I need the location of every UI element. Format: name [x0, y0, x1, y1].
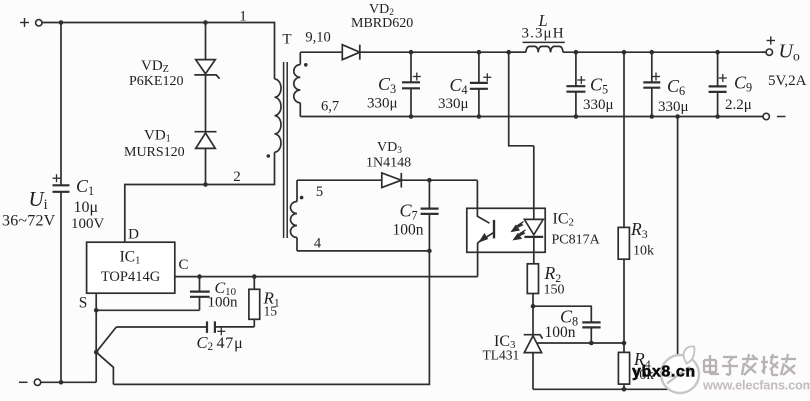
- svg-text:VDZ: VDZ: [141, 58, 169, 75]
- transformer bias winding 5,4: [291, 180, 297, 251]
- shunt regulator IC3 TL431: [524, 335, 592, 390]
- junction R1 top: [252, 274, 257, 279]
- wire LED feed: [509, 52, 534, 146]
- svg-text:4: 4: [314, 236, 322, 252]
- svg-text:6,7: 6,7: [321, 99, 339, 115]
- svg-text:R2: R2: [544, 263, 562, 285]
- label R3: [630, 219, 654, 259]
- svg-text:100V: 100V: [71, 216, 105, 232]
- wire secondary top rail b: [360, 51, 525, 53]
- diode VD2 MBRD620: [342, 45, 360, 60]
- junction C3 bottom: [409, 114, 414, 119]
- wire bias bottom (pin4 to C7): [297, 250, 429, 252]
- svg-text:5V,2A: 5V,2A: [768, 73, 807, 89]
- svg-text:1N4148: 1N4148: [366, 156, 411, 171]
- svg-text:VD3: VD3: [377, 140, 402, 156]
- svg-text:330μ: 330μ: [367, 96, 398, 112]
- transformer T label: [282, 32, 291, 48]
- inductor L: [509, 42, 565, 52]
- svg-text:S: S: [79, 295, 88, 312]
- svg-text:36~72V: 36~72V: [2, 213, 56, 230]
- label IC3: [483, 333, 520, 363]
- wire R3 drop: [623, 52, 625, 227]
- label C3: [367, 74, 398, 112]
- junction LED feed: [506, 50, 511, 55]
- svg-text:3.3μH: 3.3μH: [522, 26, 565, 42]
- label L: [522, 11, 565, 42]
- output terminal Uo +: [762, 36, 775, 55]
- wire primary top: [274, 23, 276, 80]
- output terminal -: [763, 113, 786, 119]
- svg-text:ybx8.cn: ybx8.cn: [632, 364, 696, 381]
- wire secondary top rail c: [563, 51, 769, 53]
- junction C10 top: [197, 274, 202, 279]
- capacitor C1: [53, 23, 70, 383]
- wire output ground rail: [300, 116, 766, 118]
- label C7: [393, 201, 424, 239]
- svg-text:100n: 100n: [393, 222, 424, 239]
- capacitor C8: [533, 306, 601, 343]
- label VD2: [351, 2, 413, 31]
- wire ground drop right: [677, 117, 679, 390]
- label 5V 2A: [768, 73, 807, 89]
- svg-text:15: 15: [264, 304, 278, 319]
- svg-text:47μ: 47μ: [217, 335, 244, 352]
- label C9: [725, 73, 752, 114]
- label R1: [263, 289, 280, 319]
- wire primary-side return: [113, 251, 429, 385]
- wire C pin to emitter: [175, 276, 478, 278]
- resistor R4: [618, 343, 629, 389]
- label IC1: [101, 249, 161, 286]
- junction VDZ top: [203, 20, 208, 25]
- ic IC1 TOP414G: [87, 242, 175, 293]
- pin label S: [79, 295, 88, 312]
- svg-text:9,10: 9,10: [305, 30, 330, 46]
- label R2: [544, 263, 565, 298]
- junction C1 top: [59, 20, 64, 25]
- capacitor C2: [116, 321, 254, 335]
- svg-text:www.elecfans.com: www.elecfans.com: [702, 378, 810, 393]
- junction C1 bottom: [59, 380, 64, 385]
- svg-text:MBRD620: MBRD620: [351, 16, 413, 31]
- junction S node 2: [94, 350, 99, 355]
- pin label 9,10: [305, 30, 330, 46]
- label VDZ: [129, 58, 183, 89]
- input terminal - (Ui negative): [19, 379, 61, 385]
- svg-text:100n: 100n: [208, 295, 239, 311]
- primary polarity dot: [267, 154, 271, 158]
- junction C7 top: [427, 178, 432, 183]
- wire secondary top rail a: [300, 51, 342, 53]
- input terminal + (Ui positive): [20, 18, 61, 27]
- svg-text:MURS120: MURS120: [124, 145, 185, 160]
- svg-text:D: D: [128, 227, 139, 243]
- label VD3: [366, 140, 411, 171]
- svg-text:R3: R3: [630, 219, 648, 241]
- svg-text:C4: C4: [450, 75, 468, 97]
- wire S pin: [95, 293, 97, 382]
- pin label C: [178, 257, 188, 273]
- label R4: [632, 349, 655, 383]
- transformer core: [284, 62, 288, 238]
- resistor R2: [527, 264, 538, 306]
- opto light arrows: [512, 222, 526, 240]
- junction C3 top: [409, 50, 414, 55]
- diode VD1 MURS120: [195, 132, 217, 149]
- svg-text:10μ: 10μ: [74, 199, 99, 216]
- pin label 6,7: [321, 99, 339, 115]
- pin label 4: [314, 236, 322, 252]
- label IC2: [552, 211, 601, 248]
- wire source diag: [96, 352, 113, 384]
- junction C9 bottom: [715, 114, 720, 119]
- svg-text:5: 5: [316, 184, 323, 200]
- junction S node: [94, 308, 99, 313]
- wire input bottom: [61, 381, 96, 383]
- label VD1: [124, 128, 185, 161]
- svg-text:330μ: 330μ: [583, 97, 614, 113]
- junction R3 top: [622, 50, 627, 55]
- wire VDZ top: [205, 23, 207, 60]
- capacitor C9: [709, 52, 727, 116]
- svg-text:VD1: VD1: [144, 128, 171, 145]
- secondary polarity dot: [304, 63, 308, 67]
- capacitor C3: [402, 52, 421, 116]
- label C6: [658, 76, 689, 115]
- diode VD3 1N4148: [382, 173, 402, 188]
- svg-text:100n: 100n: [545, 324, 576, 341]
- wire bottom right ground: [533, 388, 678, 390]
- wire VDZ-VD1: [205, 75, 207, 132]
- svg-text:Ui: Ui: [29, 187, 48, 213]
- label C1 value: [71, 176, 105, 232]
- svg-text:C5: C5: [590, 75, 608, 97]
- svg-text:TL431: TL431: [483, 348, 520, 363]
- svg-text:Uo: Uo: [779, 41, 800, 64]
- svg-text:2.2μ: 2.2μ: [725, 97, 752, 113]
- node 1 label: [239, 9, 247, 25]
- junction C4 bottom: [477, 114, 482, 119]
- wire bias top: [297, 179, 382, 181]
- pin label D: [128, 227, 139, 243]
- junction C7 bottom: [427, 249, 432, 254]
- capacitor C6: [643, 52, 660, 116]
- svg-text:TOP414G: TOP414G: [101, 269, 161, 285]
- watermark elecfans cn text: [704, 354, 796, 375]
- zener diode VDZ P6KE120: [194, 60, 219, 79]
- bias polarity dot: [300, 196, 304, 200]
- pin label 5: [316, 184, 323, 200]
- label C10: [208, 280, 239, 311]
- capacitor C5: [566, 52, 585, 116]
- junction C5 top: [574, 50, 579, 55]
- junction C6 bottom: [650, 114, 655, 119]
- label Ui: [2, 187, 56, 230]
- node 2 label: [233, 169, 241, 185]
- svg-text:C3: C3: [378, 74, 396, 96]
- wire VD3 to opto: [401, 179, 477, 181]
- label C2: [197, 333, 244, 353]
- svg-text:C7: C7: [400, 201, 418, 223]
- junction gnd drop: [675, 114, 680, 119]
- opto phototransistor: [477, 180, 494, 276]
- wire S to C10: [96, 309, 199, 311]
- label Uo: [779, 41, 800, 64]
- svg-text:IC2: IC2: [553, 211, 574, 229]
- label C5: [583, 75, 614, 114]
- transformer primary winding: [275, 79, 282, 152]
- label C8: [545, 307, 579, 342]
- label C4: [438, 75, 469, 112]
- svg-text:T: T: [282, 32, 291, 48]
- capacitor C4: [470, 52, 491, 116]
- wire VD1 bottom: [205, 148, 207, 184]
- opto LED: [524, 146, 543, 264]
- svg-text:C2: C2: [197, 333, 214, 353]
- watermark ybx8.cn: [632, 364, 696, 381]
- watermark elecfans url: [702, 378, 810, 393]
- resistor R3: [618, 227, 629, 259]
- svg-text:PC817A: PC817A: [552, 233, 601, 248]
- svg-text:330μ: 330μ: [658, 99, 689, 115]
- wire R3 bottom: [623, 259, 625, 343]
- wire C2 diag: [96, 327, 116, 352]
- junction C6 top: [650, 50, 655, 55]
- wire input top rail: [61, 22, 275, 24]
- svg-text:2: 2: [233, 169, 241, 185]
- junction C4 top: [477, 50, 482, 55]
- capacitor C7: [421, 180, 439, 251]
- wire R2 to TL431: [532, 306, 534, 335]
- junction C8 bottom: [589, 341, 594, 346]
- wire node 2 (primary bottom to drain): [125, 152, 275, 242]
- junction divider node: [622, 341, 627, 346]
- junction R4 bottom: [622, 387, 627, 392]
- svg-text:330μ: 330μ: [438, 96, 469, 112]
- junction node 2: [203, 182, 208, 187]
- svg-text:C9: C9: [734, 73, 752, 95]
- svg-text:C6: C6: [667, 76, 685, 98]
- svg-text:C: C: [178, 257, 188, 273]
- svg-text:P6KE120: P6KE120: [129, 74, 183, 89]
- optocoupler IC2 PC817A box: [467, 208, 545, 252]
- svg-text:150: 150: [544, 283, 565, 298]
- wire TL431 ref: [591, 342, 624, 344]
- junction C9 top: [715, 50, 720, 55]
- watermark stamp circle: [661, 346, 699, 393]
- junction C5 bottom: [574, 114, 579, 119]
- resistor R1: [249, 277, 260, 327]
- capacitor C10: [190, 277, 210, 311]
- svg-text:1: 1: [239, 9, 247, 25]
- transformer secondary winding 9,10: [294, 52, 301, 116]
- svg-text:C1: C1: [76, 176, 94, 198]
- svg-text:10k: 10k: [633, 244, 654, 259]
- junction R2 bottom: [531, 304, 536, 309]
